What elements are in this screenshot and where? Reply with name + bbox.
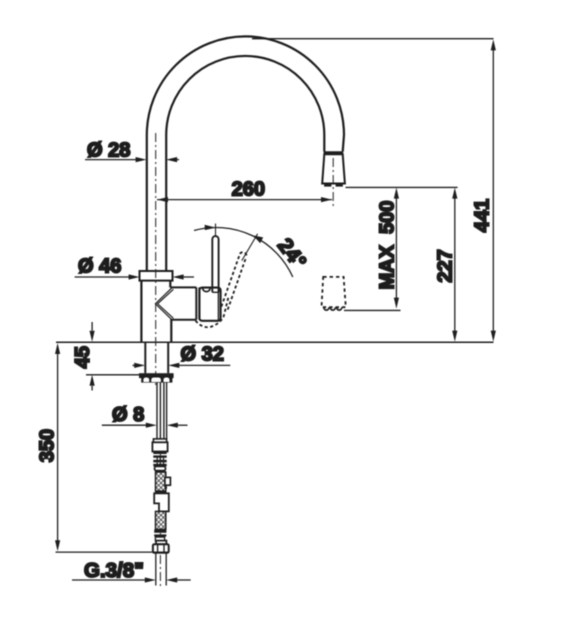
hose union block	[154, 493, 169, 511]
svg-text:Ø 28: Ø 28	[87, 140, 130, 162]
max500 bottom extension	[344, 309, 401, 311]
dim d8 arrow left	[146, 423, 157, 428]
flange lobe 1	[143, 378, 149, 383]
dim d46 arrow left	[129, 274, 140, 279]
body right edge lower	[170, 320, 172, 343]
cartridge notch	[203, 288, 210, 291]
crimp gap lines 1	[157, 458, 163, 460]
spout gooseneck inner	[166, 56, 324, 272]
dim 227 line	[454, 192, 456, 337]
dim d46 line left	[75, 276, 130, 278]
dashed swing outline	[196, 297, 229, 327]
dim 45 arrow bottom	[91, 386, 93, 391]
hose neck	[155, 537, 164, 541]
dim d28 arrow right	[166, 157, 177, 162]
arc arrowhead left	[205, 225, 216, 230]
lever axis extension	[215, 224, 217, 237]
aerator outlet left	[324, 183, 331, 187]
crimp band 2	[153, 455, 166, 457]
dashed lever rotated	[221, 254, 246, 310]
tip level extension line	[346, 186, 458, 188]
hose fitting cap	[153, 439, 166, 442]
dim d28 arrow left	[136, 157, 147, 162]
dim 441 arrow top	[491, 39, 496, 50]
counter line	[56, 341, 494, 343]
dim d8 arrow right	[167, 423, 178, 428]
crimp band 3	[153, 460, 166, 463]
dim 350 line	[57, 347, 59, 547]
top extension line	[252, 38, 494, 40]
hose side dot	[165, 486, 167, 489]
riser centerline	[155, 133, 157, 385]
svg-text:Ø 8: Ø 8	[112, 404, 144, 426]
svg-text:227: 227	[435, 249, 457, 282]
dim 260 arrow right	[321, 197, 332, 202]
svg-text:Ø 32: Ø 32	[181, 344, 224, 366]
handle lever	[212, 236, 218, 292]
dim 350 arrow top	[55, 343, 60, 354]
flange lobe 3	[164, 378, 170, 383]
crimp gap lines 2	[157, 462, 163, 464]
dim g38 arrow left	[145, 577, 156, 582]
flange lobe 2	[151, 378, 161, 383]
braid end band	[155, 491, 166, 493]
svg-text:260: 260	[232, 178, 265, 200]
aerator	[322, 154, 345, 183]
dim 441 arrow bottom	[491, 331, 496, 342]
dim d46 arrow right	[173, 274, 184, 279]
collar	[140, 271, 173, 281]
svg-text:350: 350	[37, 429, 59, 462]
dim d46 line right	[183, 276, 194, 278]
spout outlet centerline	[332, 158, 334, 206]
spout gooseneck outer	[147, 36, 344, 272]
cartridge housing U1	[199, 288, 220, 321]
dim d32 line left	[133, 364, 136, 366]
svg-text:G.3/8": G.3/8"	[84, 559, 144, 582]
mounting flange	[139, 373, 174, 378]
dim max500 line	[395, 192, 397, 304]
dim 227 arrow top	[452, 188, 457, 199]
dim d32 line right	[179, 364, 230, 366]
g38 extension lines	[156, 553, 166, 586]
shank below counter	[145, 342, 168, 373]
dim d8 line right	[177, 424, 188, 426]
nut G38	[153, 544, 169, 553]
ferrule ring	[155, 466, 166, 470]
dim 227 arrow bottom	[452, 331, 457, 342]
dim g38 line right	[176, 579, 191, 581]
lower crimp band 1	[154, 530, 166, 533]
braided hose upper	[156, 472, 166, 491]
dim g38 arrow right	[166, 577, 177, 582]
body cone inner	[158, 289, 174, 318]
dim d28 line left	[85, 159, 137, 161]
spray head scallops	[324, 307, 342, 310]
nut collar	[156, 541, 166, 545]
hose fitting body	[152, 442, 167, 451]
braided hose lower	[156, 511, 166, 529]
lower crimp band 2	[154, 534, 166, 536]
crimp band 1	[153, 452, 166, 454]
dim 260 arrow left	[157, 197, 168, 202]
dim max500 arrow top	[394, 188, 399, 199]
flange nut row	[141, 377, 172, 382]
ferrule band	[155, 470, 165, 472]
crimp band 4	[153, 464, 166, 467]
dim max500 arrow bottom	[394, 298, 399, 309]
svg-text:441: 441	[472, 199, 494, 232]
dim 350 arrow bottom	[55, 540, 60, 551]
svg-text:MAX 500: MAX 500	[377, 201, 399, 290]
dashed spray head	[322, 277, 346, 307]
svg-text:Ø 46: Ø 46	[78, 256, 121, 278]
rotation arc 24	[194, 228, 293, 277]
dim 45 arrow top	[91, 322, 93, 331]
dim d28 line right	[177, 159, 180, 161]
body left edge	[140, 281, 142, 343]
nut facets	[158, 544, 164, 553]
dashed lever cap	[240, 252, 247, 257]
arc arrowhead right	[253, 235, 263, 243]
dim 350 extension	[56, 551, 170, 553]
dim d8 line left	[102, 424, 147, 426]
hose side tab	[165, 477, 171, 485]
dim 441 line	[492, 44, 494, 337]
cartridge cap line	[217, 289, 219, 320]
aerator outlet right	[336, 183, 343, 187]
dashed lever axis	[242, 234, 258, 261]
dim 45 extension	[86, 374, 140, 376]
svg-text:45: 45	[72, 346, 94, 368]
spout joint	[324, 151, 344, 154]
dim g38 line left	[72, 579, 146, 581]
hose centerline	[159, 436, 161, 586]
body cone	[155, 288, 171, 320]
dim 260 line	[157, 199, 332, 201]
body right edge upper	[169, 281, 171, 288]
dim d32 arrow left	[134, 363, 145, 368]
dim d32 arrow right	[168, 363, 179, 368]
svg-text:24°: 24°	[273, 234, 311, 273]
side outlet	[170, 287, 199, 319]
supply tubes	[157, 382, 167, 439]
lever bottom line	[212, 291, 218, 293]
